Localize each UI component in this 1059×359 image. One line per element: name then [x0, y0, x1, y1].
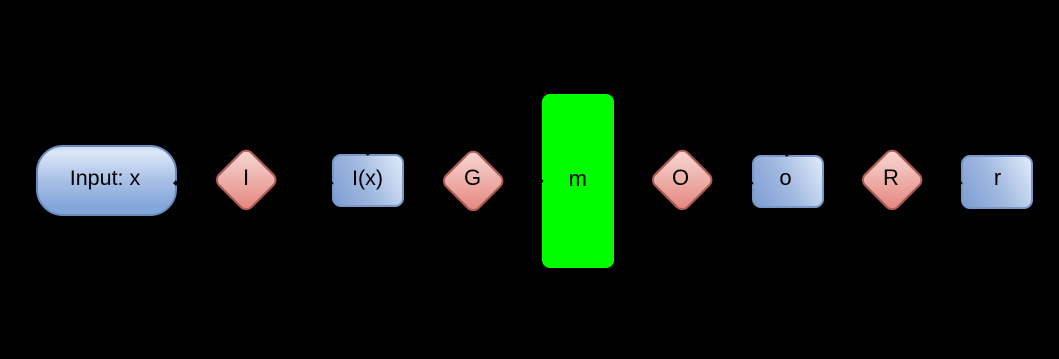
- label I(x): [332, 166, 403, 190]
- label o: [750, 166, 821, 190]
- diamond G: [439, 147, 507, 215]
- arrow stub into m left edge: [538, 178, 543, 183]
- diamond I: [212, 146, 280, 214]
- label m: [542, 167, 614, 191]
- arrow stub into o top edge: [784, 151, 789, 156]
- rect r: [961, 155, 1033, 210]
- arrow stub into stadium right edge: [173, 180, 178, 185]
- diamond R: [858, 146, 926, 214]
- arrow stub into o left edge: [748, 180, 753, 185]
- rect I(x): [332, 154, 404, 207]
- label Input: x: [35, 166, 175, 190]
- arrow stub into I(x) left edge: [328, 180, 333, 185]
- node Input: x (stadium): [36, 145, 177, 216]
- label R: [861, 166, 921, 190]
- rect o: [752, 155, 824, 208]
- label O: [651, 166, 711, 190]
- arrow stub into I(x) top edge: [365, 151, 370, 156]
- arrow stub into r left edge: [957, 180, 962, 185]
- node m (green): [542, 94, 614, 268]
- diamond O: [648, 146, 716, 214]
- label I: [216, 166, 276, 190]
- label G: [443, 166, 503, 190]
- label r: [962, 166, 1033, 190]
